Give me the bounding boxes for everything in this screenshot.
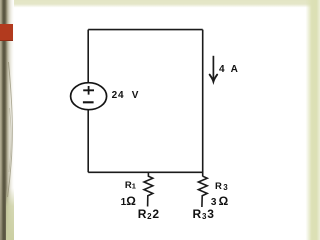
- sidebar bottom darkening: [0, 170, 6, 240]
- label 4 A: [219, 64, 240, 75]
- label R_3 3: [193, 207, 215, 221]
- resistor R3: [198, 176, 207, 207]
- label 1 ohm: [121, 194, 136, 208]
- voltage source V1 ellipse: [71, 83, 107, 110]
- minus sign: [83, 101, 94, 103]
- wire: bottom side of loop: [88, 171, 203, 173]
- right border band: [300, 0, 320, 240]
- label R_2 2: [138, 207, 160, 221]
- wire: top side of loop: [88, 29, 203, 31]
- label R3: [215, 181, 228, 192]
- top border band: [0, 0, 320, 8]
- wire: right side of loop: [202, 30, 204, 177]
- label 3 ohm: [211, 194, 228, 208]
- sidebar pale green lower part: [6, 188, 14, 240]
- current arrow 4A: [212, 56, 214, 81]
- red block: [0, 24, 13, 41]
- label R1: [125, 180, 136, 191]
- left sidebar texture: [0, 0, 14, 240]
- wire: left side upper (to source): [87, 30, 89, 83]
- resistor R1: [144, 172, 153, 206]
- sidebar faint curves: [0, 0, 24, 240]
- label 24 V: [112, 90, 140, 101]
- wire: left side lower (from source): [87, 110, 89, 173]
- plus sign: [83, 86, 94, 95]
